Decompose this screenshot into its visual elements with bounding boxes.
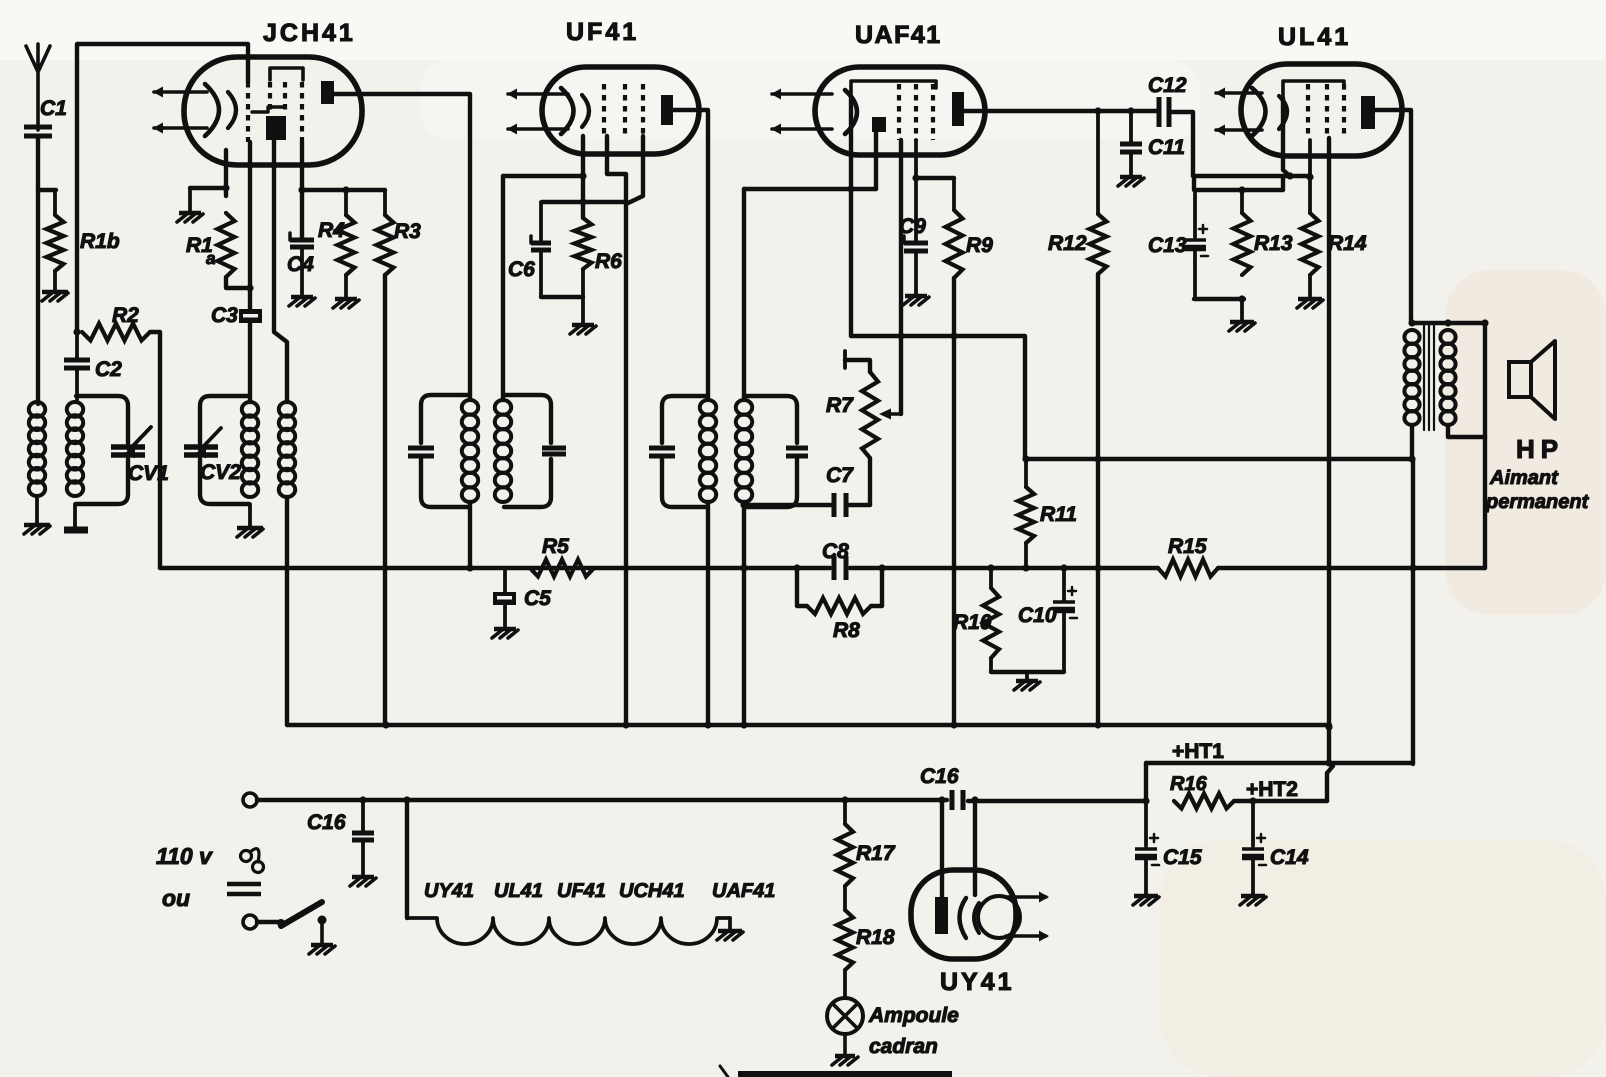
svg-text:C14: C14 (1270, 846, 1309, 869)
heater arrows UAF41 (772, 92, 832, 96)
ground under C5 (494, 627, 516, 631)
HT rail 459 (1026, 457, 1413, 461)
svg-text:cadran: cadran (869, 1035, 938, 1058)
capacitor C7 rail (744, 503, 834, 507)
wire IFT2 secondary bottom to lower bus (742, 502, 746, 725)
AVC bus right part (850, 566, 1158, 570)
svg-text:R11: R11 (1040, 503, 1077, 526)
resistor R8 (797, 568, 807, 606)
plug symbol (241, 851, 252, 862)
screen bracket UAF41 (851, 81, 936, 98)
svg-text:permanent: permanent (1485, 491, 1590, 513)
screen bracket UCH41 (270, 68, 303, 80)
wire heater chain to ground (728, 918, 732, 930)
heater arrows UCH41 (154, 90, 207, 94)
ground under R14 (1298, 297, 1322, 301)
wire UF41 anode to IFT2 (673, 110, 708, 398)
svg-text:UAF41: UAF41 (855, 21, 942, 49)
detector bus to volume pot (851, 336, 1025, 459)
capacitor C5 (503, 568, 507, 592)
grid rail UL41 (1193, 174, 1310, 178)
grid g2 UL41 (1325, 84, 1329, 138)
svg-text:UAF41: UAF41 (712, 880, 775, 902)
grid g2 UF41 (623, 84, 627, 136)
capacitor C1 (24, 125, 52, 130)
svg-text:+HT2: +HT2 (1246, 778, 1298, 801)
riser to HT1 rail (1144, 763, 1148, 801)
resistor R12 (1096, 111, 1100, 214)
wire feedback coil bottom to lower bus (285, 497, 289, 725)
anode UCH41 (321, 81, 334, 104)
svg-text:R7: R7 (826, 394, 854, 417)
svg-text:C11: C11 (1148, 136, 1185, 159)
svg-text:R10: R10 (953, 611, 992, 634)
wire C12 to UL41 grid (1169, 112, 1193, 176)
tube UF41 envelope (542, 67, 699, 154)
wire R3 down to lower bus (383, 275, 387, 725)
coil output transformer secondary (1440, 330, 1455, 344)
capacitor C11 (1129, 111, 1133, 143)
coil output transformer primary (1404, 330, 1419, 344)
battery bars (227, 882, 261, 887)
capacitor C16 HT (950, 790, 955, 810)
wire triode anode pin to feedback coil (274, 140, 287, 402)
wire R7 bottom to C7 rail (868, 458, 872, 505)
capacitor C7 (832, 493, 837, 517)
svg-text:C9: C9 (899, 215, 926, 238)
capacitor IFT1 secondary (542, 446, 566, 451)
wire speaker vertical (1483, 323, 1487, 437)
terminal power bottom (243, 915, 257, 929)
wire antenna down to coil (36, 136, 40, 404)
cathode UL41 (1252, 88, 1266, 136)
resistor R15 (1158, 560, 1218, 577)
wire HT2 up join (1327, 766, 1333, 801)
wire screen pin UCH41 (300, 142, 304, 240)
wire C2 to secondary coil (75, 368, 79, 400)
svg-text:CV1: CV1 (128, 462, 169, 485)
wire C4 to ground (300, 247, 304, 296)
svg-text:+HT1: +HT1 (1172, 740, 1224, 763)
heater chain filaments (407, 918, 730, 944)
HT riser to HT1 rail (1411, 459, 1415, 764)
capacitor C10 (1062, 568, 1066, 600)
svg-text:R5: R5 (542, 535, 569, 558)
potentiometer R7 (843, 351, 847, 368)
svg-text:R14: R14 (1328, 232, 1367, 255)
tank frame CV2 (200, 396, 249, 443)
coil IFT2 primary (700, 400, 716, 415)
mains line (257, 798, 947, 802)
wire primary bottom to HT riser (1410, 425, 1414, 459)
ground under switch (311, 943, 333, 947)
svg-text:a: a (206, 249, 215, 268)
IF transformer 2 right tank frame (745, 396, 797, 443)
svg-text:C12: C12 (1148, 74, 1187, 97)
wire stub to R1b (38, 188, 56, 192)
svg-text:R16: R16 (1170, 773, 1208, 795)
svg-text:R18: R18 (856, 926, 895, 949)
svg-text:C6: C6 (508, 258, 535, 281)
svg-text:R9: R9 (966, 234, 993, 257)
coil oscillator tank (242, 402, 258, 417)
svg-text:C3: C3 (211, 304, 238, 327)
antenna (26, 44, 50, 130)
grid g2 UCH41 (268, 82, 272, 112)
svg-text:C16: C16 (920, 765, 959, 788)
wire screen rail UCH41 (302, 188, 385, 192)
wire grid pin UCH41 to C3 (248, 142, 252, 309)
heater arrows UY41 (1006, 895, 1046, 899)
svg-text:R2: R2 (112, 304, 139, 327)
capacitor C13 (1193, 190, 1197, 237)
svg-text:C16: C16 (307, 811, 346, 834)
capacitor C16 mains (361, 800, 365, 831)
rail C13 R13 bottom (1194, 297, 1244, 301)
wire UCH41 anode to IFT1 (334, 94, 470, 398)
resistor R1b (53, 190, 57, 215)
resistor R1a (218, 213, 235, 277)
svg-text:R8: R8 (833, 619, 860, 642)
wire R13 to ground (1240, 299, 1244, 321)
capacitor IFT2 secondary (786, 446, 808, 451)
ground under R4 (335, 297, 357, 301)
ground cathode UCH41 (179, 211, 201, 215)
tube UY41 envelope (911, 870, 1016, 959)
svg-text:C10: C10 (1018, 604, 1057, 627)
grid g1 UL41 (1306, 84, 1310, 138)
wire C3 to oscillator tank (248, 323, 252, 402)
wire IFT2 primary bottom crossing to lower bus (706, 502, 710, 725)
wire secondary bottom stub (73, 504, 77, 527)
grid g1 UAF41 (897, 84, 901, 140)
grid g3 UAF41 (931, 84, 935, 140)
cathode UCH41 (205, 84, 219, 136)
svg-text:R12: R12 (1048, 232, 1087, 255)
tank frame CV1 (76, 396, 128, 443)
cathode UY41 (960, 898, 967, 938)
anode UAF41 (952, 92, 964, 126)
output transformer top rail (1412, 321, 1485, 325)
wire diode pin UAF41 (874, 132, 878, 189)
lower bus (287, 723, 1330, 727)
wire UL41 screen pin to HT1 rail (1327, 138, 1331, 763)
ground under R1b (42, 290, 68, 294)
grid g3 UF41 (641, 84, 645, 136)
tube JCH41 envelope (184, 57, 362, 165)
svg-text:UL41: UL41 (1278, 23, 1351, 51)
ground under R6 (572, 323, 594, 327)
heater arrows UF41 (508, 92, 568, 96)
wire UF41 grid rail (542, 200, 626, 204)
ground under C4 (291, 295, 313, 299)
svg-text:R13: R13 (1254, 232, 1293, 255)
ground under R10 C10 (1025, 672, 1029, 680)
svg-text:R17: R17 (856, 842, 896, 865)
wire IFT1 secondary top to UF41 cathode rail (501, 176, 505, 400)
wire UF41 g3 pin (628, 136, 643, 203)
HT2 line (1234, 799, 1327, 803)
grid g2 UAF41 (914, 84, 918, 140)
IF transformer 1 right tank frame (504, 395, 551, 443)
resistor R10 (989, 568, 993, 588)
wire UL41 anode to output transformer (1375, 110, 1411, 323)
grid g4 UCH41 (300, 82, 304, 142)
chassis bar under secondary (64, 527, 88, 534)
ground under C16 mains (352, 875, 374, 879)
wire UAF41 grid rail (744, 187, 876, 191)
resistor R13 (1240, 190, 1244, 213)
capacitor C3 (239, 309, 262, 323)
wire R10 C10 bottom rail (991, 670, 1064, 674)
IF transformer 2 left tank frame (662, 396, 707, 443)
diode anode UAF41 (872, 117, 886, 132)
AVC bus left part (160, 566, 830, 570)
switch (257, 920, 281, 924)
triode grid step UCH41 (252, 107, 285, 112)
ground under oscillator tank (237, 526, 263, 530)
ground under C9 (905, 294, 927, 298)
grid bias rail UL41 (1194, 176, 1283, 190)
svg-text:C8: C8 (822, 540, 849, 563)
wire R9 down to lower bus (952, 278, 956, 725)
wire UAF41 g3 pin down to pot wiper (899, 140, 903, 414)
capacitor C6 (539, 202, 543, 241)
wire UAF41 grid pin down to detector bus (849, 98, 853, 336)
ground under antenna coil (24, 523, 50, 527)
wire cathode pin UCH41 (224, 150, 228, 196)
wire tank bottom to ground (248, 504, 252, 527)
svg-text:HP: HP (1516, 434, 1564, 464)
tube UL41 envelope (1241, 64, 1402, 156)
coil IFT1 primary (462, 400, 478, 415)
wire UL41 grid pin (1283, 98, 1290, 176)
loudspeaker HP (1509, 362, 1531, 397)
coil antenna secondary (67, 402, 83, 417)
resistor R16 (1174, 794, 1234, 809)
coil oscillator feedback (279, 402, 295, 417)
svg-text:ou: ou (162, 885, 190, 911)
IF transformer 1 left tank frame (421, 395, 469, 443)
lamp ampoule cadran (827, 998, 863, 1034)
wiper arrow R7 (884, 412, 901, 415)
svg-text:UF41: UF41 (557, 880, 606, 902)
ground under R13 (1230, 320, 1254, 324)
capacitor C2 (64, 358, 90, 363)
HT line after rectifier (968, 799, 1146, 803)
grid g3 UCH41 (283, 82, 287, 112)
anode UF41 (661, 95, 673, 125)
heater arrows UL41 (1216, 91, 1262, 95)
capacitor IFT2 primary (649, 446, 675, 451)
grid g3 UL41 (1342, 84, 1346, 138)
capacitor C12 (1157, 97, 1162, 127)
ground under C14 (1241, 894, 1265, 898)
svg-text:Ampoule: Ampoule (868, 1004, 959, 1027)
variable capacitor CV2 (184, 444, 218, 450)
cathode UF41 (561, 88, 574, 134)
svg-text:UCH41: UCH41 (619, 880, 685, 902)
screen bracket UL41 (1283, 81, 1344, 98)
wire IFT1 primary bottom to AVC bus (468, 502, 472, 568)
svg-text:C1: C1 (40, 97, 67, 120)
resistor R2 (82, 324, 150, 341)
ground under lamp (835, 1054, 855, 1058)
resistor R11 (1024, 459, 1028, 487)
wire UY41 cathode pin up (973, 800, 977, 895)
resistor R4 (344, 190, 348, 215)
cathode UAF41 (845, 90, 857, 134)
svg-text:R6: R6 (595, 250, 622, 273)
tube UAF41 envelope (815, 67, 985, 155)
svg-text:UF41: UF41 (566, 18, 639, 46)
core output transformer (1423, 324, 1425, 430)
svg-text:C2: C2 (95, 358, 122, 381)
svg-text:UL41: UL41 (494, 880, 543, 902)
svg-text:JCH41: JCH41 (263, 19, 356, 47)
terminal power top (243, 793, 257, 807)
resistor R6 (575, 218, 592, 269)
svg-text:UY41: UY41 (940, 968, 1015, 996)
grid g1 UCH41 (246, 82, 250, 142)
resistor R17 (843, 800, 847, 824)
wire primary bottom to ground (35, 496, 39, 524)
wire lamp to ground (843, 1034, 847, 1055)
wire cathode rail to ground stub (190, 186, 226, 190)
wire R12 down to lower bus (1096, 274, 1100, 725)
heater loop UY41 (978, 896, 1020, 938)
coil antenna primary (29, 402, 45, 417)
AVC bus right end segment (1218, 566, 1485, 570)
wire top bus from oscillator line to UCH41 grid (77, 44, 248, 332)
wire UF41 g2 pin to AVC drop (607, 136, 626, 202)
svg-text:R3: R3 (394, 220, 421, 243)
svg-text:C13: C13 (1148, 234, 1187, 257)
wire UF41 cathode pin and rail (581, 136, 585, 218)
svg-text:UY41: UY41 (424, 880, 474, 902)
svg-text:R15: R15 (1168, 535, 1207, 558)
wire AVC vertical to buses (624, 202, 628, 725)
wire R2 right end down to AVC bus (150, 332, 160, 568)
resistor R5 (530, 560, 594, 577)
capacitor C4 (290, 238, 314, 243)
svg-text:C5: C5 (524, 587, 551, 610)
capacitor C9 (914, 140, 918, 241)
wire secondary bottom to speaker line (1448, 425, 1485, 437)
triode anode UCH41 (266, 116, 286, 140)
svg-text:R1b: R1b (80, 230, 120, 253)
ground heater chain (718, 929, 742, 933)
resistor R14 (1308, 140, 1312, 213)
resistor R9 (916, 176, 954, 180)
wire UAF41 anode line (964, 109, 1159, 113)
coil IFT2 secondary (736, 400, 752, 415)
svg-text:Aimant: Aimant (1489, 467, 1559, 489)
HT1 rail (1146, 761, 1413, 765)
ground under C11 (1120, 175, 1142, 179)
capacitor IFT1 primary (408, 446, 434, 451)
resistor R3 (383, 190, 387, 215)
coil IFT1 secondary (495, 400, 511, 415)
anode UY41 (935, 897, 948, 934)
grid g1 UF41 (602, 84, 606, 136)
heater chain drop (405, 800, 409, 918)
svg-text:CV2: CV2 (200, 461, 241, 484)
anode UL41 (1361, 96, 1375, 129)
capacitor C8 (832, 556, 837, 580)
wire UY41 anode pin up (940, 800, 944, 897)
svg-text:110 v: 110 v (156, 843, 213, 869)
ground under C15 (1134, 894, 1158, 898)
capacitor C15 (1144, 801, 1148, 846)
svg-text:C7: C7 (826, 464, 854, 487)
capacitor C14 (1251, 801, 1255, 846)
svg-text:R4: R4 (318, 219, 345, 242)
svg-text:C15: C15 (1163, 846, 1202, 869)
resistor R18 (843, 886, 847, 910)
wire IFT2 secondary top to UAF41 grid rail (742, 189, 746, 400)
bottom cut print artifact (738, 1071, 952, 1077)
variable capacitor CV1 (111, 444, 145, 450)
